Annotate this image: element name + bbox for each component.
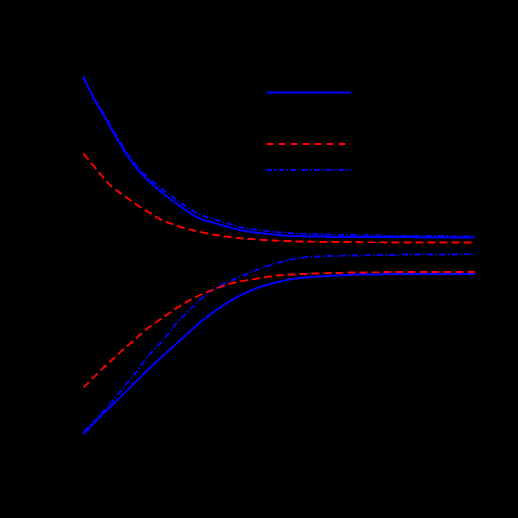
lower blue dash-dot curve <box>84 254 475 431</box>
upper red dashed curve <box>84 154 475 243</box>
lower solid blue curve <box>83 274 474 434</box>
lower red dashed curve <box>84 272 475 388</box>
upper solid blue curve <box>83 77 474 237</box>
upper blue dash-dot curve <box>83 77 474 237</box>
legend red dashed line <box>267 143 352 145</box>
legend blue dash-dot line <box>267 169 352 171</box>
legend solid blue line <box>267 92 352 94</box>
